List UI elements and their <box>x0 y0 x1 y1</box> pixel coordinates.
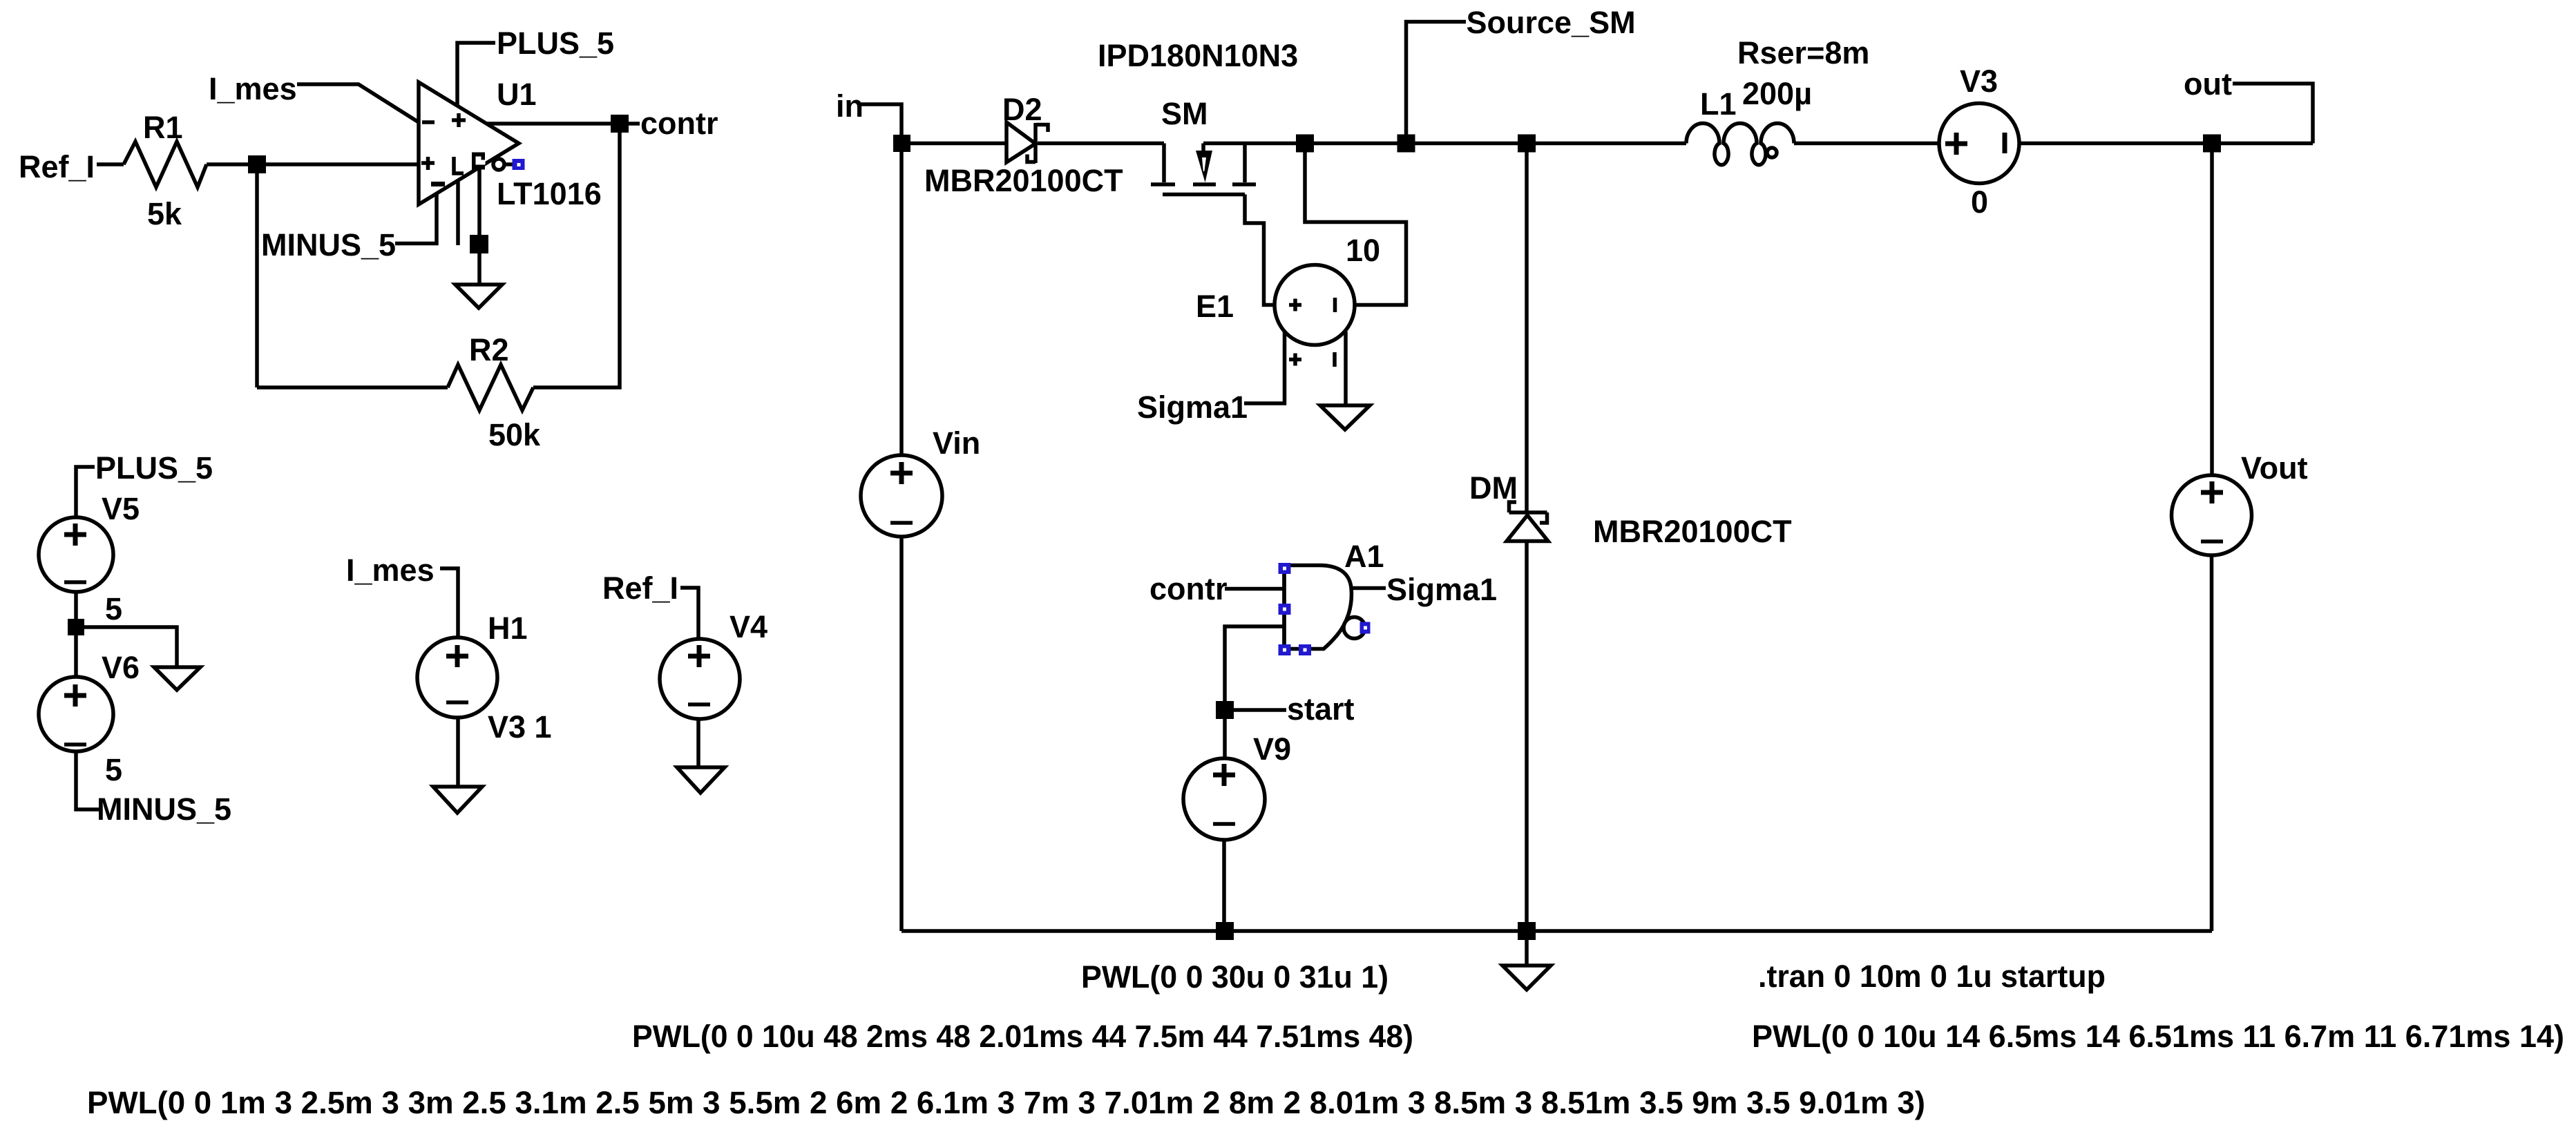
A1 pin box 2 (blue) <box>1279 604 1291 615</box>
main wire in to D2 <box>901 142 1006 146</box>
H1 plus marker <box>446 645 468 667</box>
V9 minus marker <box>1213 822 1235 826</box>
wire DM tap down <box>1525 144 1529 513</box>
wire DM to bottom rail <box>1525 541 1529 932</box>
svg-text:V9: V9 <box>1253 731 1291 767</box>
diode D2 triangle <box>1006 122 1036 162</box>
diode D2 schottky bar <box>1027 123 1048 163</box>
wire second input from start <box>1225 626 1284 710</box>
junction below U1 <box>470 235 488 253</box>
ground (V5/V6 node) <box>154 667 200 690</box>
junction A (feedback tap) <box>248 155 266 173</box>
svg-text:E1: E1 <box>1196 289 1234 324</box>
svg-text:PWL(0 0 10u 48 2ms 48 2.01ms 4: PWL(0 0 10u 48 2ms 48 2.01ms 44 7.5m 44 … <box>632 1019 1413 1054</box>
svg-text:contr: contr <box>1149 571 1228 606</box>
wire bottom rail <box>901 929 2212 933</box>
svg-text:SM: SM <box>1161 96 1208 131</box>
V9 plus marker <box>1213 764 1235 786</box>
svg-text:PWL(0 0 1m 3 2.5m 3 3m 2.5 3.1: PWL(0 0 1m 3 2.5m 3 3m 2.5 3.1m 2.5 5m 3… <box>87 1085 1925 1120</box>
junction contr <box>611 115 629 133</box>
gate A1 output bubble <box>1344 617 1365 639</box>
wire V6 to MINUS_5 <box>76 751 99 809</box>
A1 pin box 4 (blue) <box>1299 644 1311 655</box>
wire R2 bottom left <box>257 385 448 390</box>
wire I_mes to H1 <box>440 568 458 637</box>
gate A1 input bar <box>1282 566 1286 649</box>
svg-text:5: 5 <box>105 591 122 626</box>
wire V3 to out junction <box>2019 142 2313 146</box>
U1 gnd glyph G <box>472 153 486 170</box>
wire D2 to gate <box>1038 142 1164 146</box>
V3 minus marker <box>2003 133 2007 153</box>
wire start to V9 <box>1223 710 1227 758</box>
mosfet gate lead <box>1162 144 1166 183</box>
V4 minus marker <box>688 702 710 707</box>
diode DM triangle <box>1507 515 1548 541</box>
wire Vin to bottom rail <box>899 537 904 931</box>
svg-text:Vin: Vin <box>933 425 980 461</box>
wire main source rail <box>1203 142 1686 146</box>
wire bubble to pin box <box>504 162 513 166</box>
svg-text:V3: V3 <box>1960 64 1998 99</box>
svg-text:R2: R2 <box>469 332 509 367</box>
svg-text:out: out <box>2184 66 2232 102</box>
svg-text:I_mes: I_mes <box>209 71 297 106</box>
A1 pin box 5 (blue, comp output) <box>1360 622 1371 634</box>
wire L1 to V3 <box>1794 142 1939 146</box>
svg-text:IPD180N10N3: IPD180N10N3 <box>1098 38 1298 73</box>
Vin minus marker <box>890 521 913 525</box>
mosfet channel segment left <box>1151 182 1175 186</box>
svg-text:MINUS_5: MINUS_5 <box>261 227 396 262</box>
svg-text:LT1016: LT1016 <box>497 176 602 211</box>
mosfet drain lead <box>1243 144 1247 183</box>
Vout minus marker <box>2201 539 2223 544</box>
svg-text:50k: 50k <box>488 417 541 452</box>
gate A1 body <box>1284 566 1351 649</box>
V3 plus marker <box>1945 133 1967 155</box>
wire Ref_I to V4 <box>680 588 698 639</box>
wire E1 tap to E1 right pin <box>1305 144 1406 305</box>
A1 pin box 1 (blue) <box>1279 563 1291 574</box>
H1 minus marker <box>446 700 468 704</box>
svg-text:V5: V5 <box>102 491 140 526</box>
wire R1 to U1 +in <box>207 162 419 166</box>
current-dep voltage source H1 <box>417 637 497 718</box>
voltage source V5 <box>39 517 113 592</box>
V5 plus marker <box>64 524 86 546</box>
mosfet channel segment mid <box>1193 182 1216 186</box>
svg-text:PLUS_5: PLUS_5 <box>497 26 614 61</box>
E1 minus marker <box>1333 298 1337 312</box>
U1 inverting input marker <box>422 120 435 124</box>
wire PLUS_5 to V5 <box>76 467 95 517</box>
svg-text:I_mes: I_mes <box>346 553 435 588</box>
diode DM schottky bar <box>1509 502 1547 523</box>
junction DM rail <box>1518 922 1536 940</box>
svg-text:in: in <box>836 88 864 124</box>
U1 V+ marker <box>452 113 466 127</box>
U1 power pin wire to PLUS_5 <box>457 43 495 106</box>
junction start <box>1216 701 1234 719</box>
mosfet source lead arrow <box>1201 144 1205 155</box>
junction V9 rail <box>1216 922 1234 940</box>
U1 V- marker <box>431 182 445 186</box>
U1 Qbar bubble <box>493 159 504 170</box>
V4 plus marker <box>688 645 710 667</box>
svg-text:A1: A1 <box>1344 539 1384 574</box>
A1 pin box 3 (blue) <box>1279 644 1291 655</box>
E1 control plus marker <box>1289 354 1301 366</box>
voltage source Vin <box>861 455 942 537</box>
voltage source V9 <box>1183 758 1265 840</box>
wire riser to Source_SM label <box>1406 22 1467 144</box>
svg-text:V6: V6 <box>102 650 140 685</box>
svg-text:Sigma1: Sigma1 <box>1137 390 1248 425</box>
wire mosfet bulk to E1 <box>1245 195 1275 305</box>
voltage source V6 <box>39 677 113 751</box>
voltage source Vout <box>2172 475 2252 555</box>
svg-text:PWL(0 0 30u 0 31u 1): PWL(0 0 30u 0 31u 1) <box>1081 959 1389 995</box>
wire V4 to ground <box>696 719 700 767</box>
svg-text:Source_SM: Source_SM <box>1467 5 1636 40</box>
svg-text:PWL(0 0 10u 14 6.5ms 14 6.51ms: PWL(0 0 10u 14 6.5ms 14 6.51ms 11 6.7m 1… <box>1752 1019 2564 1054</box>
mosfet channel segment right <box>1232 182 1256 186</box>
E1 control plus pin <box>1244 332 1285 403</box>
wire I_mes to U1 -in <box>297 84 419 122</box>
dependent source E1 circle <box>1275 265 1355 345</box>
wire out hook <box>2233 84 2313 144</box>
wire rail to ground <box>1525 931 1529 966</box>
wire junction to start label <box>1225 708 1286 712</box>
L1 phase dot <box>1767 148 1777 157</box>
svg-text:5k: 5k <box>147 196 182 231</box>
svg-text:H1: H1 <box>488 611 528 646</box>
wire V9 to bottom rail <box>1222 840 1226 931</box>
ground (U1) <box>455 285 502 308</box>
wire MINUS_5 to U1 V- pin <box>395 193 437 244</box>
junction E1 tap <box>1296 135 1314 153</box>
U1 output wire <box>487 122 620 126</box>
U1 unconnected pin box (blue) <box>513 159 525 170</box>
svg-text:V4: V4 <box>729 609 767 644</box>
wire contr to A1 <box>1225 587 1284 591</box>
wire junction to ground <box>76 627 177 667</box>
op-amp U1 triangle <box>419 82 519 204</box>
E1 control minus pin <box>1344 332 1348 405</box>
junction out <box>2203 135 2221 153</box>
V5 minus marker <box>64 580 86 584</box>
svg-text:10: 10 <box>1346 233 1380 268</box>
mosfet gate bar <box>1163 193 1245 197</box>
V6 plus marker <box>64 684 86 707</box>
resistor R2 <box>448 365 533 410</box>
wire junction to contr label <box>629 122 640 126</box>
U1 gnd pin wire <box>477 168 481 285</box>
svg-text:R1: R1 <box>143 110 183 145</box>
svg-text:MBR20100CT: MBR20100CT <box>1593 514 1792 549</box>
wire junction to V6 <box>74 627 78 677</box>
inductor L1 <box>1686 124 1794 165</box>
wire R2 to contr junction <box>533 124 620 387</box>
wire junction down to R2 <box>255 164 259 387</box>
svg-text:5: 5 <box>105 752 122 787</box>
svg-text:Sigma1: Sigma1 <box>1386 572 1497 607</box>
ground (V4) <box>677 767 725 793</box>
svg-text:start: start <box>1287 691 1355 727</box>
E1 plus marker <box>1289 299 1301 311</box>
ground (E1) <box>1320 405 1370 430</box>
svg-text:Vout: Vout <box>2241 450 2308 486</box>
svg-text:U1: U1 <box>497 77 537 112</box>
svg-text:MINUS_5: MINUS_5 <box>97 791 231 827</box>
svg-text:MBR20100CT: MBR20100CT <box>924 163 1123 198</box>
svg-text:Ref_I: Ref_I <box>19 149 95 184</box>
E1 control minus marker <box>1333 352 1337 367</box>
junction in <box>893 135 910 152</box>
svg-text:V3 1: V3 1 <box>488 709 552 745</box>
svg-text:0: 0 <box>1971 184 1988 220</box>
wire out junction to Vout <box>2210 144 2214 476</box>
svg-text:200µ: 200µ <box>1742 76 1812 111</box>
wire in to main rail <box>861 104 901 455</box>
U1 latch pin stub <box>456 180 460 245</box>
svg-text:L1: L1 <box>1700 86 1737 122</box>
Vout plus marker <box>2201 481 2223 503</box>
svg-text:.tran 0 10m 0 1u startup: .tran 0 10m 0 1u startup <box>1758 959 2106 994</box>
wire Ref_I to R1 <box>97 162 124 166</box>
voltage source V4 <box>660 639 740 719</box>
junction Source_SM <box>1397 135 1415 153</box>
svg-text:PLUS_5: PLUS_5 <box>95 450 213 486</box>
resistor R1 <box>124 142 207 187</box>
ground (rail) <box>1502 966 1551 990</box>
wire V5 to junction <box>74 592 78 627</box>
V6 minus marker <box>64 742 86 747</box>
wire Vout to bottom rail <box>2210 555 2214 931</box>
wire H1 to ground <box>456 718 460 787</box>
Vin plus marker <box>890 462 913 484</box>
svg-text:Rser=8m: Rser=8m <box>1737 35 1869 70</box>
svg-text:Ref_I: Ref_I <box>602 570 678 606</box>
junction DM tap <box>1518 135 1536 153</box>
ground (H1) <box>433 787 482 813</box>
voltage source V3 <box>1939 104 2019 184</box>
wire A1 output to Sigma1 <box>1351 586 1386 591</box>
U1 latch glyph L <box>454 157 464 173</box>
U1 noninverting input marker <box>421 157 435 170</box>
junction 5 <box>68 619 84 635</box>
svg-text:contr: contr <box>640 106 718 141</box>
